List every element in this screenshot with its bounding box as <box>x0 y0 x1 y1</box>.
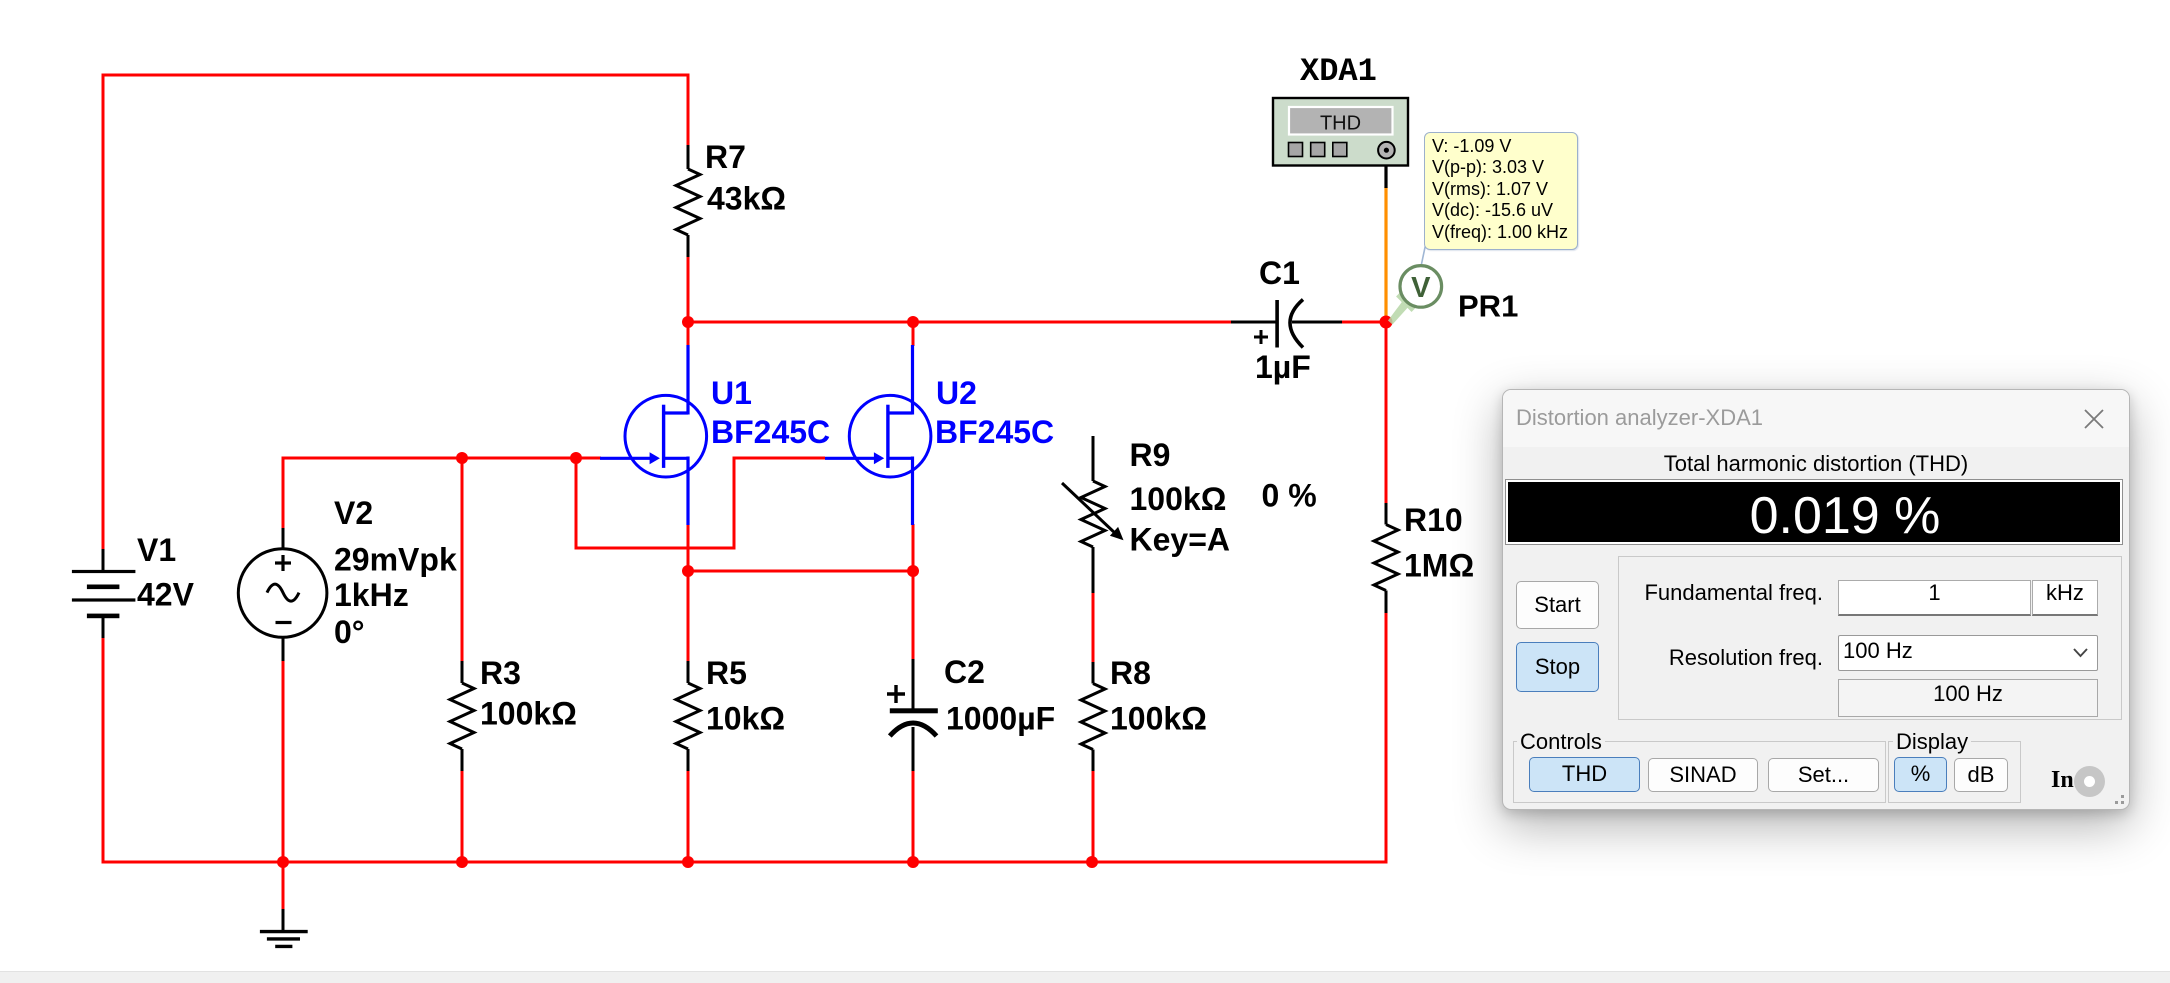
label U1 type BF245C <box>711 414 830 450</box>
wire R3 top stub <box>461 458 464 661</box>
label PR1 <box>1458 289 1518 324</box>
svg-text:1000µF: 1000µF <box>946 701 1055 737</box>
capacitor C1 <box>1231 300 1342 348</box>
resistor R8 <box>1081 662 1105 771</box>
transistor U1 BF245C <box>600 345 707 525</box>
wire ground stub below rail <box>282 862 285 909</box>
label Controls <box>1517 729 1605 755</box>
label R7 <box>705 139 746 175</box>
svg-text:BF245C: BF245C <box>935 414 1054 450</box>
input fundamental value <box>1838 580 2031 616</box>
svg-text:100kΩ: 100kΩ <box>1110 701 1207 737</box>
label U1 <box>711 375 752 411</box>
label C1 value 1uF <box>1255 349 1311 385</box>
button Set... <box>1768 758 1879 792</box>
bottom gray strip <box>0 971 2170 983</box>
junction node ground R3 <box>456 856 468 868</box>
label 1kHz <box>334 577 409 613</box>
resistor R3 <box>450 661 474 771</box>
junction node U1 gate <box>570 452 582 464</box>
button dB <box>1954 758 2008 792</box>
junction node ground R8 <box>1086 856 1098 868</box>
unit box kHz <box>2032 580 2098 616</box>
svg-text:R7: R7 <box>705 139 746 175</box>
junction node U1 source <box>682 565 694 577</box>
dialog Distortion analyzer-XDA1 <box>1502 389 2130 810</box>
group box frequencies <box>1618 556 2122 720</box>
label C2 value 1000uF <box>946 701 1055 737</box>
svg-text:R9: R9 <box>1130 437 1171 473</box>
label XDA1 <box>1300 53 1377 90</box>
wire R7 bottom to drain node <box>687 256 690 324</box>
wire U1 drain red stub <box>687 322 690 346</box>
button Start <box>1516 581 1599 629</box>
wire R3 bottom stub <box>461 771 464 864</box>
capacitor C2 <box>887 659 938 771</box>
button percent (active) <box>1894 757 1947 792</box>
dialog title <box>1516 405 1763 431</box>
svg-text:R10: R10 <box>1404 502 1463 538</box>
wire R8 bottom stub <box>1092 771 1095 864</box>
label R9 percent <box>1262 478 1317 514</box>
wire gate jumper up <box>733 457 736 550</box>
svg-text:THD: THD <box>1320 113 1361 135</box>
svg-text:100kΩ: 100kΩ <box>480 696 577 732</box>
wire XDA1 terminal black segment <box>1384 157 1387 188</box>
wire bottom ground rail <box>102 861 1388 864</box>
junction node output PR1 <box>1380 316 1393 329</box>
resistor R5 <box>676 661 700 771</box>
svg-text:1µF: 1µF <box>1255 349 1311 385</box>
svg-text:R8: R8 <box>1110 655 1151 691</box>
distortion analyzer instrument XDA1 icon <box>1273 98 1408 166</box>
svg-text:V1: V1 <box>137 532 176 568</box>
label 29mVpk <box>334 542 457 578</box>
svg-text:42V: 42V <box>137 577 195 613</box>
THD numeric display <box>1505 479 2123 545</box>
svg-text:1kHz: 1kHz <box>334 577 409 613</box>
junction node ground C2 <box>907 856 919 868</box>
svg-text:R5: R5 <box>706 655 747 691</box>
probe PR1 tooltip readout <box>1424 132 1578 250</box>
wire R5 top stub <box>687 571 690 661</box>
label U2 type BF245C <box>935 414 1054 450</box>
svg-text:PR1: PR1 <box>1458 289 1518 324</box>
wire drain rail left (U1 drain node to C1) <box>688 321 1231 324</box>
label C1 <box>1259 255 1300 291</box>
button Stop (active) <box>1516 642 1599 692</box>
wire R7 top stub <box>687 75 690 145</box>
label V2 <box>334 495 373 531</box>
wire gate jumper horizontal <box>575 547 736 550</box>
transistor U2 BF245C <box>825 345 931 525</box>
wire V2 bottom to ground rail <box>282 660 285 864</box>
svg-text:V2: V2 <box>334 495 373 531</box>
resistor R7 <box>676 145 700 257</box>
svg-text:10kΩ: 10kΩ <box>706 701 785 737</box>
junction node U2 source <box>907 565 919 577</box>
label In <box>2051 767 2074 794</box>
label R3 <box>480 655 521 691</box>
svg-text:0 %: 0 % <box>1262 478 1317 514</box>
label U2 <box>936 375 977 411</box>
svg-text:XDA1: XDA1 <box>1300 53 1377 90</box>
result box 100 Hz <box>1838 679 2098 717</box>
wire input rail V2 to gate node <box>282 457 578 529</box>
wire gate jumper down <box>575 457 578 550</box>
resistor R10 <box>1374 503 1398 613</box>
junction node U2 drain <box>907 316 919 328</box>
label R9 <box>1130 437 1171 473</box>
wire output node to R10 <box>1385 322 1388 503</box>
dialog resize grip <box>2121 801 2124 804</box>
svg-text:BF245C: BF245C <box>711 414 830 450</box>
label 0deg <box>334 614 365 650</box>
junction node U1 drain <box>682 316 694 328</box>
group box Controls <box>1513 741 1886 803</box>
wire U2 gate red segment <box>734 457 825 460</box>
svg-text:100kΩ: 100kΩ <box>1130 481 1227 517</box>
label Total harmonic distortion (THD) <box>1503 451 2129 477</box>
label Resolution freq. <box>1523 645 1823 671</box>
label R10 value 1MOhm <box>1404 548 1474 584</box>
wire U2 source red stub <box>912 524 915 573</box>
wire R10 bottom to ground rail <box>1385 613 1388 864</box>
button THD (active) <box>1529 757 1640 792</box>
svg-text:Key=A: Key=A <box>1130 522 1231 558</box>
ground <box>260 909 308 946</box>
wire U2 drain red stub <box>912 322 915 346</box>
junction node R3 top <box>456 452 468 464</box>
svg-text:U1: U1 <box>711 375 752 411</box>
label R8 value 100kOhm <box>1110 701 1207 737</box>
svg-text:R3: R3 <box>480 655 521 691</box>
wire left rail bottom (V1- to ground rail) <box>102 637 105 864</box>
wire R9 bottom to R8 <box>1092 592 1095 662</box>
svg-text:C2: C2 <box>944 654 985 690</box>
svg-text:C1: C1 <box>1259 255 1300 291</box>
svg-text:29mVpk: 29mVpk <box>334 542 457 578</box>
label R5 <box>706 655 747 691</box>
svg-text:43kΩ: 43kΩ <box>707 181 786 217</box>
wire R5 bottom stub <box>687 771 690 864</box>
label R9 Key=A <box>1130 522 1231 558</box>
svg-text:V: V <box>1411 272 1431 304</box>
wire top rail V1+ to R7 <box>102 74 690 550</box>
label R5 value 10kOhm <box>706 701 785 737</box>
probe PR1 voltage marker <box>1388 245 1442 325</box>
label R9 value 100kOhm <box>1130 481 1227 517</box>
wire source rail U1-U2 <box>688 570 913 573</box>
label R10 <box>1404 502 1463 538</box>
wire U1 source red stub <box>687 524 690 573</box>
label R3 value 100kOhm <box>480 696 577 732</box>
svg-text:1MΩ: 1MΩ <box>1404 548 1474 584</box>
AC source V2 <box>238 528 327 661</box>
wire C2 top stub <box>912 571 915 659</box>
potentiometer R9 <box>1062 436 1124 593</box>
label R8 <box>1110 655 1151 691</box>
label 42V <box>137 577 195 613</box>
label C2 <box>944 654 985 690</box>
junction node ground V2 <box>277 856 289 868</box>
label Fundamental freq. <box>1523 580 1823 606</box>
dropdown resolution freq <box>1838 635 2098 671</box>
dialog close button X <box>2083 408 2105 430</box>
label 43kOhm <box>707 181 786 217</box>
svg-text:0°: 0° <box>334 614 365 650</box>
group box Display <box>1888 741 2021 803</box>
label V1 <box>137 532 176 568</box>
battery V1 42V <box>72 549 135 638</box>
label Display <box>1893 729 1971 755</box>
wire U1 gate red segment <box>576 457 601 460</box>
button SINAD <box>1648 758 1758 792</box>
wire probe orange segment from XDA1 <box>1384 187 1387 324</box>
junction node ground R5 <box>682 856 694 868</box>
wire C2 bottom stub <box>912 770 915 864</box>
svg-text:U2: U2 <box>936 375 977 411</box>
wire drain rail right (C1 to output node) <box>1341 321 1388 324</box>
In connector circle <box>2074 766 2105 797</box>
